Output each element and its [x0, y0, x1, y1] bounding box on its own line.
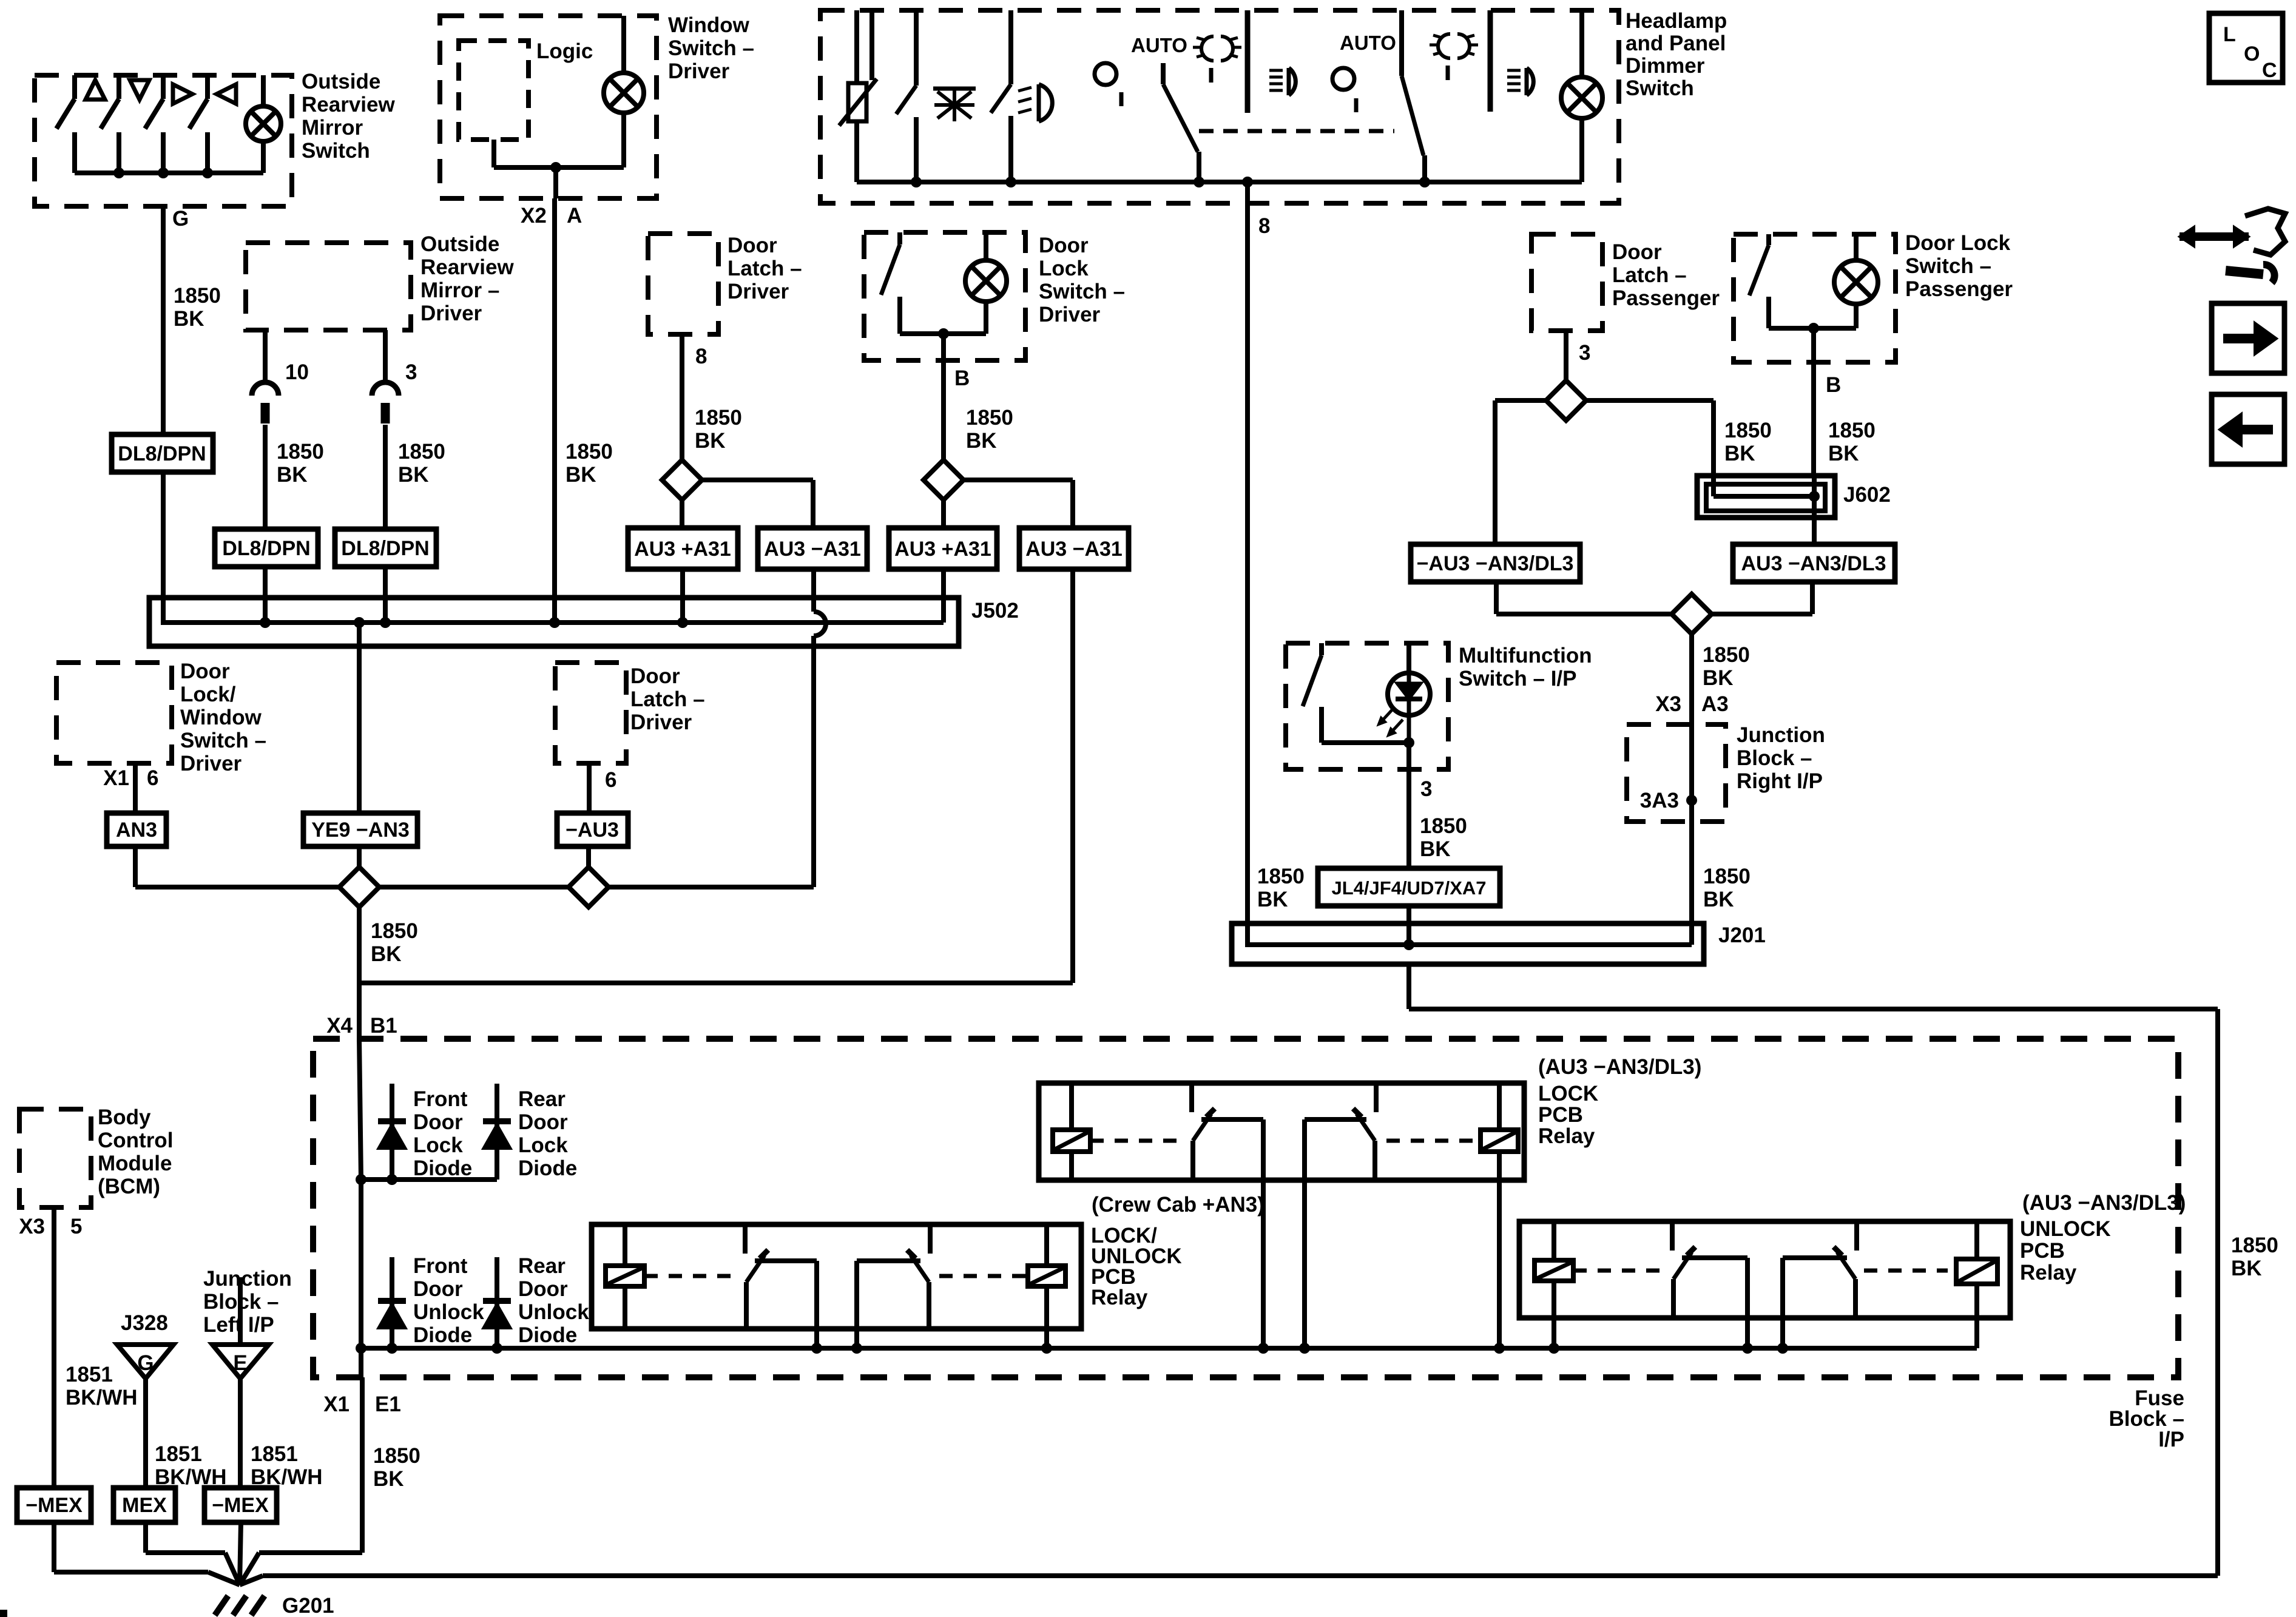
svg-text:6: 6 [147, 766, 158, 790]
svg-text:Window: Window [180, 706, 262, 729]
svg-text:BK: BK [1828, 442, 1859, 465]
mirror switch blade [116, 75, 121, 99]
svg-text:Body: Body [98, 1106, 151, 1129]
door latch - passenger (dashed box) [1531, 234, 1602, 331]
svg-text:LOCK: LOCK [1538, 1082, 1598, 1106]
crew relay switch left [743, 1224, 748, 1254]
svg-text:Headlamp: Headlamp [1626, 9, 1727, 33]
front door lock diode [390, 1084, 394, 1180]
svg-text:Door: Door [1612, 240, 1662, 264]
svg-text:Lock: Lock [1039, 257, 1089, 280]
svg-text:−MEX: −MEX [212, 1494, 269, 1517]
svg-text:1850: 1850 [966, 406, 1013, 430]
svg-text:5: 5 [70, 1215, 82, 1238]
unlock relay mech link dashed 2 [1864, 1269, 1948, 1273]
svg-text:DL8/DPN: DL8/DPN [118, 442, 206, 465]
svg-text:PCB: PCB [1538, 1103, 1583, 1127]
svg-text:BK: BK [1703, 888, 1734, 911]
svg-text:BK: BK [373, 1467, 404, 1491]
parklamp circle 2 [1332, 68, 1354, 90]
switch internal bus [900, 331, 986, 336]
svg-text:1850: 1850 [373, 1444, 420, 1468]
svg-text:1850: 1850 [1724, 419, 1772, 442]
svg-text:−AU3: −AU3 [566, 819, 619, 842]
svg-text:BK: BK [966, 429, 997, 453]
door latch - driver (dashed box, lower) [555, 663, 626, 763]
multifunction LED indicator [1406, 643, 1411, 673]
mirror switch arrow left [217, 84, 236, 104]
connector box DL8/DPN (driver door harness) [112, 434, 213, 472]
svg-text:E1: E1 [375, 1393, 401, 1416]
svg-text:X2: X2 [521, 204, 547, 228]
svg-text:A3: A3 [1701, 692, 1729, 716]
svg-text:Passenger: Passenger [1905, 277, 2013, 301]
svg-text:1850: 1850 [1828, 419, 1876, 442]
headlamp and panel dimmer switch (dashed box) [820, 10, 1619, 203]
UNLOCK PCB relay box [1519, 1221, 2010, 1318]
svg-text:Window: Window [668, 13, 750, 37]
lock diode bus [361, 1177, 497, 1182]
unlock relay coil left [1551, 1221, 1556, 1260]
connector box AU3 -AN3/DL3 [1733, 544, 1895, 582]
mirror switch illumination lamp [261, 75, 266, 106]
svg-text:Unlock: Unlock [413, 1300, 484, 1324]
pin B wire to J602 [1811, 328, 1816, 476]
svg-text:(BCM): (BCM) [98, 1175, 160, 1198]
svg-text:J502: J502 [971, 599, 1019, 623]
svg-text:and Panel: and Panel [1626, 32, 1726, 55]
svg-text:BK: BK [1724, 442, 1755, 465]
svg-text:(AU3 −AN3/DL3): (AU3 −AN3/DL3) [1538, 1055, 1701, 1079]
svg-text:Relay: Relay [1538, 1124, 1595, 1148]
diamond left arm down to -AU3 -AN3/DL3 [1495, 398, 1547, 403]
logic module (dashed box) [459, 41, 528, 140]
svg-text:BK: BK [1703, 666, 1734, 690]
svg-text:UNLOCK: UNLOCK [2020, 1217, 2111, 1241]
connector box -MEX [17, 1488, 91, 1522]
connector box AU3 -A31 [758, 528, 867, 569]
fog lamp switch blade [1008, 10, 1013, 84]
svg-text:BK: BK [371, 942, 402, 966]
mirror switch blade [161, 75, 166, 99]
front door unlock diode [390, 1257, 394, 1348]
svg-text:(AU3 −AN3/DL3): (AU3 −AN3/DL3) [2022, 1191, 2186, 1215]
svg-text:J602: J602 [1843, 483, 1891, 507]
lock relay mech link dashed [1090, 1139, 1183, 1143]
ground symbol G201 [215, 1596, 228, 1615]
service tool icon (wrench and arrows) [2180, 232, 2249, 241]
svg-text:−MEX: −MEX [25, 1494, 83, 1517]
junction dot to pin 8 [1242, 177, 1253, 187]
svg-text:AU3 +A31: AU3 +A31 [634, 538, 731, 561]
crew cab lock/unlock PCB relay box [592, 1224, 1081, 1329]
wire E to -MEX [238, 1379, 243, 1488]
splice pack J502 [149, 598, 959, 646]
wire AU3 +A31 into J502 [941, 569, 946, 601]
mirror switch arrow right [173, 84, 192, 104]
svg-text:Junction: Junction [1737, 723, 1825, 747]
svg-text:Door: Door [630, 664, 680, 688]
svg-text:J328: J328 [121, 1311, 168, 1335]
svg-text:Relay: Relay [2020, 1261, 2077, 1284]
ground fan-in wires to G201 [52, 1522, 56, 1572]
svg-text:Driver: Driver [1039, 303, 1101, 326]
svg-text:3: 3 [405, 360, 417, 384]
junction block - right I/P (dashed box) [1627, 724, 1726, 822]
wire J328 to MEX [143, 1379, 148, 1488]
svg-text:PCB: PCB [2020, 1239, 2065, 1263]
connector box -AU3 -AN3/DL3 [1411, 544, 1580, 582]
svg-text:Rearview: Rearview [302, 93, 395, 116]
svg-text:Latch –: Latch – [1612, 263, 1687, 287]
window switch - driver (dashed box) [440, 16, 657, 198]
svg-text:1850: 1850 [1420, 814, 1467, 838]
multifunction switch - I/P (dashed box) [1286, 643, 1448, 769]
svg-text:1850: 1850 [695, 406, 742, 430]
svg-text:Door: Door [518, 1277, 568, 1301]
svg-text:Diode: Diode [518, 1156, 577, 1180]
crew relay switch right [928, 1224, 933, 1254]
svg-text:BK: BK [695, 429, 726, 453]
svg-text:G: G [137, 1351, 154, 1375]
svg-text:BK: BK [2231, 1257, 2262, 1280]
pin B wire [941, 334, 946, 461]
splice diamond [1672, 594, 1712, 634]
svg-text:Right I/P: Right I/P [1737, 769, 1823, 793]
svg-text:AU3 +A31: AU3 +A31 [894, 538, 991, 561]
splice pack J602 [1697, 476, 1835, 518]
svg-text:DL8/DPN: DL8/DPN [341, 537, 429, 560]
diamond right arm to AU3 -A31 [964, 478, 1073, 482]
wire to JL4 fuse [1407, 715, 1411, 743]
crew relay mech link dashed [644, 1274, 737, 1278]
svg-text:Unlock: Unlock [518, 1300, 589, 1324]
svg-text:3: 3 [1420, 777, 1432, 801]
wire AU3 +A31 to J502 [680, 569, 685, 623]
svg-text:Switch –: Switch – [668, 36, 754, 60]
LOC legend box [2209, 13, 2283, 83]
BCM ground wire [52, 1207, 56, 1488]
wires to splice diamond [1494, 582, 1499, 614]
svg-text:X4: X4 [326, 1014, 353, 1038]
junction dot [550, 162, 561, 173]
svg-text:1850: 1850 [566, 440, 613, 464]
svg-text:BK: BK [174, 307, 204, 331]
stray mark bottom left [0, 1610, 7, 1617]
svg-text:Rear: Rear [518, 1254, 566, 1278]
svg-text:1850: 1850 [277, 440, 324, 464]
junction dots on mirror bus [113, 167, 124, 178]
svg-text:Driver: Driver [630, 711, 692, 734]
rear door unlock diode [495, 1257, 499, 1348]
contact bar 2 [1488, 10, 1493, 112]
svg-text:Switch –: Switch – [1905, 254, 1991, 278]
low beam icon 2 [1527, 68, 1533, 95]
svg-text:1850: 1850 [1703, 865, 1751, 888]
svg-text:1851: 1851 [155, 1442, 202, 1466]
svg-text:AU3 −AN3/DL3: AU3 −AN3/DL3 [1741, 552, 1886, 575]
svg-text:Relay: Relay [1091, 1286, 1148, 1309]
connector box AU3 +A31 [889, 528, 997, 569]
wire J502 to YE9 -AN3 [357, 623, 362, 813]
svg-text:Driver: Driver [180, 752, 242, 775]
door lock switch - passenger (dashed box) [1734, 234, 1896, 362]
J201 output to right side ground run [1406, 964, 1411, 1009]
headlamp auto switch blade [1161, 63, 1166, 84]
main ground bus inside fuse block [361, 1346, 1977, 1351]
svg-text:AUTO: AUTO [1340, 32, 1396, 54]
headlamp on icon 2 [1438, 34, 1470, 58]
low beam icon [1289, 68, 1295, 95]
svg-text:YE9 −AN3: YE9 −AN3 [311, 819, 410, 842]
lock relay switch left [1189, 1083, 1194, 1112]
wire G to DL8/DPN [161, 206, 166, 434]
svg-text:Switch: Switch [302, 139, 370, 163]
svg-text:1850: 1850 [2231, 1234, 2278, 1257]
svg-text:G: G [172, 207, 189, 231]
crew relay coil left [623, 1224, 627, 1266]
ground bus to right side [240, 1576, 263, 1585]
svg-text:Driver: Driver [420, 302, 482, 325]
splice pack J201 [1232, 923, 1704, 964]
svg-text:Block –: Block – [1737, 746, 1812, 770]
J502 junction dots [260, 617, 271, 628]
svg-text:AN3: AN3 [116, 819, 157, 842]
wire to AU3 +A31 [680, 500, 684, 528]
svg-text:JL4/JF4/UD7/XA7: JL4/JF4/UD7/XA7 [1332, 877, 1487, 899]
svg-text:Diode: Diode [413, 1156, 472, 1180]
diamond right arm to J602 [1586, 398, 1714, 403]
svg-text:Door: Door [180, 660, 230, 683]
svg-text:G201: G201 [282, 1594, 334, 1617]
mirror switch bottom bus [75, 170, 263, 175]
svg-text:Lock/: Lock/ [180, 683, 236, 706]
splice diamond [1546, 380, 1586, 420]
wire to junction block right [1689, 634, 1694, 724]
multifunction switch blade [1319, 643, 1324, 655]
svg-text:3A3: 3A3 [1640, 789, 1679, 812]
splice diamond [923, 460, 964, 500]
connector box DL8/DPN [215, 529, 318, 567]
connector box AU3 +A31 [628, 528, 738, 569]
back arrow box [2212, 394, 2284, 464]
pin 8 output wire [1245, 182, 1250, 923]
svg-text:Junction: Junction [203, 1267, 292, 1291]
svg-text:J201: J201 [1718, 923, 1766, 947]
panel lamp [1579, 10, 1584, 77]
X4/B1 wire into fuse block [359, 1039, 361, 1180]
mirror switch arrow up [86, 80, 105, 100]
pin 6 wire [587, 763, 592, 813]
branch to rear ground run [359, 981, 1073, 985]
door lock switch lamp [1854, 234, 1859, 260]
unlock relay switch right [1854, 1221, 1859, 1251]
svg-text:AU3 −A31: AU3 −A31 [1025, 538, 1123, 561]
outside rearview mirror switch (dashed box) [35, 75, 292, 206]
door lock switch - driver (dashed box) [864, 232, 1025, 360]
svg-text:DL8/DPN: DL8/DPN [222, 537, 310, 560]
rear door lock diode [495, 1084, 499, 1180]
svg-text:Outside: Outside [302, 70, 380, 93]
svg-text:I/P: I/P [2158, 1428, 2184, 1451]
logic output wire [491, 140, 496, 167]
lock relay coil left [1069, 1083, 1074, 1130]
headlamp on icon [1201, 36, 1233, 61]
svg-text:C: C [2262, 59, 2277, 82]
connector box DL8/DPN [335, 529, 436, 567]
mirror switch arrow down [130, 80, 149, 100]
door lock switch lamp [984, 232, 988, 260]
contact bar [1245, 10, 1251, 113]
svg-text:Door Lock: Door Lock [1905, 231, 2011, 255]
connector box AU3 -A31 [1019, 528, 1129, 569]
svg-text:L: L [2223, 23, 2236, 46]
svg-text:Passenger: Passenger [1612, 286, 1720, 310]
svg-text:Outside: Outside [420, 232, 499, 256]
svg-text:Diode: Diode [413, 1323, 472, 1347]
svg-text:Diode: Diode [518, 1323, 577, 1347]
wire DL8/DPN to J502 [161, 472, 166, 601]
svg-text:Rear: Rear [518, 1087, 566, 1111]
connector box MEX [113, 1488, 175, 1522]
lock relay coil right [1497, 1083, 1502, 1130]
svg-text:6: 6 [605, 768, 616, 792]
mirror switch blade [205, 75, 210, 99]
svg-text:(Crew Cab +AN3): (Crew Cab +AN3) [1092, 1193, 1264, 1217]
svg-text:8: 8 [695, 345, 707, 368]
svg-text:Switch: Switch [1626, 76, 1694, 100]
mirror driver wire pin 10 [263, 330, 268, 382]
lock relay switch right [1374, 1083, 1379, 1112]
crew relay mech link dashed 2 [939, 1274, 1028, 1278]
fuse box JL4/JF4/UD7/XA7 [1318, 868, 1500, 906]
X1/E1 exit wire [359, 1348, 363, 1377]
fuse block - I/P (dashed box) [313, 1039, 2178, 1377]
svg-text:AUTO: AUTO [1131, 34, 1187, 56]
mirror switch blade [72, 75, 77, 99]
crew relay coil right [1044, 1224, 1049, 1266]
svg-text:Module: Module [98, 1152, 172, 1175]
door latch - driver (dashed box, top) [648, 234, 718, 334]
svg-text:8: 8 [1258, 214, 1270, 238]
svg-text:1850: 1850 [371, 919, 418, 943]
svg-text:Dimmer: Dimmer [1626, 54, 1705, 78]
svg-text:B: B [954, 366, 970, 390]
lock relay mech link dashed 2 [1386, 1139, 1481, 1143]
ground wire 1850 BK down to fuse block [357, 907, 362, 1039]
window switch output wire X2-A [553, 167, 558, 198]
headlamp switch internal bus [857, 180, 1582, 184]
AN3 wire to diamond row [133, 846, 138, 887]
connector box -AU3 [557, 813, 628, 846]
rear defog symbol [937, 92, 971, 118]
svg-text:Logic: Logic [536, 39, 593, 63]
svg-text:Door: Door [518, 1110, 568, 1134]
svg-text:Mirror: Mirror [302, 116, 363, 140]
svg-text:Lock: Lock [518, 1133, 568, 1157]
dome lamp switch blade [914, 10, 919, 86]
svg-text:Door: Door [1039, 234, 1089, 257]
LED emission arrows [1380, 709, 1393, 723]
outside rearview mirror - driver (dashed box) [246, 243, 411, 330]
svg-text:1851: 1851 [251, 1442, 298, 1466]
door lock switch blade [897, 232, 902, 245]
connector box YE9 -AN3 [303, 813, 417, 846]
svg-text:1850: 1850 [398, 440, 445, 464]
svg-text:Switch –: Switch – [1039, 280, 1125, 303]
diamond right arm to AU3 -A31 [702, 478, 813, 482]
svg-text:Switch – I/P: Switch – I/P [1459, 667, 1577, 690]
splice diamond -AU3 [586, 846, 591, 867]
svg-text:O: O [2244, 42, 2260, 66]
svg-text:BK: BK [277, 463, 308, 487]
svg-text:Door: Door [728, 234, 777, 257]
svg-text:E: E [233, 1351, 247, 1375]
door lock/window switch - driver (dashed box) [56, 663, 172, 763]
svg-text:Door: Door [413, 1277, 463, 1301]
svg-text:B: B [1826, 373, 1841, 397]
svg-text:BK: BK [566, 463, 596, 487]
svg-text:1851: 1851 [66, 1363, 113, 1386]
window switch illumination lamp [621, 16, 626, 73]
svg-text:BK: BK [398, 463, 429, 487]
wire J602 to AU3 -AN3/DL3 [1812, 518, 1817, 544]
forward arrow box [2212, 303, 2284, 373]
svg-text:Front: Front [413, 1087, 468, 1111]
splice diamond YE9 [357, 846, 362, 867]
LOCK PCB relay box [1039, 1083, 1524, 1180]
svg-text:BK: BK [1420, 837, 1451, 861]
svg-text:Multifunction: Multifunction [1459, 644, 1592, 667]
door lock switch blade [1766, 234, 1771, 245]
svg-text:X1: X1 [323, 1393, 349, 1416]
svg-text:AU3 −A31: AU3 −A31 [764, 538, 861, 561]
svg-text:3: 3 [1579, 341, 1590, 365]
svg-text:A: A [567, 204, 582, 228]
unlock relay switch left [1670, 1221, 1675, 1251]
panel dimmer rheostat [854, 10, 859, 83]
headlamp switch blade 2 [1399, 10, 1404, 76]
connector box AN3 [107, 813, 166, 846]
pin 8 wire [680, 334, 684, 461]
mirror driver wire pin 3 [383, 330, 388, 382]
svg-text:Control: Control [98, 1129, 173, 1152]
svg-text:−AU3 −AN3/DL3: −AU3 −AN3/DL3 [1417, 552, 1574, 575]
unlock relay coil right [1974, 1221, 1979, 1259]
fog lamp icon [1039, 84, 1052, 121]
svg-text:1850: 1850 [1257, 865, 1305, 888]
svg-text:Latch –: Latch – [728, 257, 802, 280]
unlock relay mech link dashed [1573, 1269, 1663, 1273]
svg-text:Rearview: Rearview [420, 255, 514, 279]
svg-text:BK: BK [1257, 888, 1288, 911]
pin 3 wire [1564, 331, 1568, 381]
svg-text:Switch –: Switch – [180, 729, 266, 752]
svg-text:Driver: Driver [728, 280, 789, 303]
splice diamond [662, 460, 702, 500]
wire AU3 -A31 down through J502 with hop over bus [811, 569, 816, 612]
svg-text:BK/WH: BK/WH [66, 1386, 138, 1409]
svg-text:Lock: Lock [413, 1133, 463, 1157]
svg-text:Mirror –: Mirror – [420, 279, 499, 302]
svg-text:10: 10 [285, 360, 309, 384]
svg-text:Latch –: Latch – [630, 687, 705, 711]
connector box -MEX 2 [204, 1488, 277, 1522]
svg-text:B1: B1 [370, 1014, 397, 1038]
wires DL8/DPN to J502 [263, 567, 268, 623]
svg-text:1850: 1850 [174, 284, 221, 308]
parklamp indicator circle [1095, 63, 1116, 85]
